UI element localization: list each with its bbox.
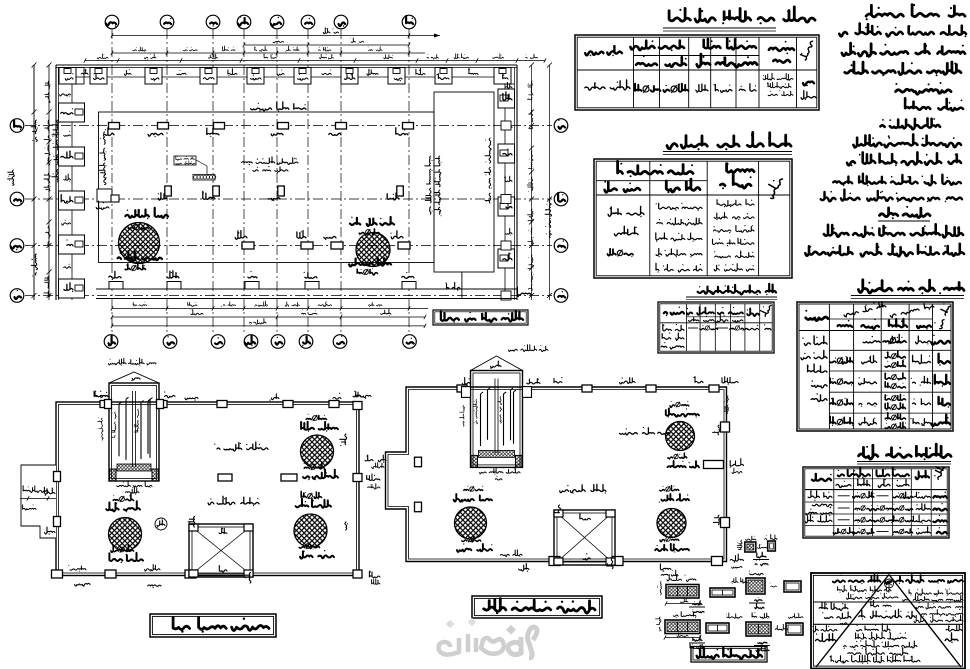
ground slab plan: elevator x-box bbox=[188, 517, 253, 584]
table: wall foundations reinforcement bbox=[575, 35, 819, 110]
table: columns reinforcement bbox=[797, 300, 953, 431]
foundation plan: top dimension line segments row2 bbox=[243, 38, 410, 48]
repeated slab plan: grid bubble A bbox=[0, 0, 1, 1]
foundation plan: vertical grid centerlines bbox=[112, 29, 409, 335]
column section C1 with labels bbox=[656, 612, 702, 640]
table title: wall foundations reinforcement bbox=[663, 7, 815, 31]
column section B2 with labels bbox=[710, 578, 747, 598]
ground slab plan: bottom wall column marks bbox=[52, 565, 197, 589]
ground slab plan: outer walls bbox=[56, 402, 359, 576]
repeated slab plan: title label box bbox=[472, 596, 602, 618]
column section A2 with labels bbox=[765, 535, 777, 552]
column section B4 bbox=[784, 581, 801, 592]
foundation plan: columns row 2 bbox=[96, 186, 403, 210]
foundation plan: left grid bubbles 1-4 bbox=[10, 119, 24, 303]
section group A fraction bbox=[753, 552, 769, 565]
ground slab plan: title label box bbox=[150, 614, 276, 637]
foundation plan: raft slab boundary rectangle bbox=[52, 102, 434, 263]
foundation plan: columns row 3 bbox=[235, 231, 410, 249]
ground slab plan: slab thickness labels bbox=[208, 442, 268, 506]
foundation plan: top strip footing band bbox=[56, 65, 517, 84]
title block: middle row texts bbox=[819, 600, 963, 624]
repeated slab plan: mesh circle c2 bbox=[655, 486, 689, 553]
table title: parapets and braces reinforcement bbox=[686, 284, 777, 299]
column section B1 with labels bbox=[657, 575, 700, 606]
foundation plan: right strip footing band bbox=[498, 65, 517, 300]
table title: foundations reinforcement bbox=[663, 132, 792, 154]
ground slab plan: right wall column marks bbox=[340, 392, 380, 584]
ground slab plan: left edge protrusion bbox=[20, 465, 56, 538]
title block: triangle bbox=[816, 575, 961, 668]
foundation plan: left vertical dimension lines bbox=[8, 63, 52, 301]
column section C2 with labels bbox=[706, 613, 742, 633]
ground slab plan: mesh circle c3 bbox=[294, 491, 334, 558]
ground slab plan: stair tower bbox=[95, 358, 164, 495]
foundation plan: stair wait detail bbox=[174, 156, 216, 180]
section group C3 fraction bbox=[754, 642, 770, 651]
section group B3 fraction bbox=[749, 597, 765, 609]
foundation plan: bottom strip footing band bbox=[96, 271, 531, 299]
foundation plan: bottom dimension lines bbox=[111, 301, 428, 328]
ground slab plan: top wall column marks bbox=[94, 391, 361, 408]
table: parapets and braces reinforcement bbox=[658, 302, 774, 353]
shared bottom grid bubbles row bbox=[104, 335, 416, 349]
ground slab plan: left wall column marks bbox=[44, 472, 60, 535]
ground slab plan: mesh circle c2 bbox=[301, 414, 339, 480]
repeated slab plan: mesh circle c3 bbox=[454, 486, 493, 552]
ground slab plan: circled number bbox=[155, 518, 167, 530]
column section C3 with labels bbox=[746, 612, 788, 636]
section group B fraction bbox=[689, 601, 705, 613]
watermark bbox=[439, 618, 537, 658]
repeated slab plan: mesh circle c1 bbox=[666, 401, 700, 468]
table title: beams reinforcement bbox=[857, 444, 951, 464]
repeated slab plan: interior column marks bbox=[415, 457, 422, 512]
foundation plan: mesh circle B with labels bbox=[349, 217, 394, 276]
column section B3 with labels bbox=[746, 571, 777, 595]
title block: bottom row texts bbox=[812, 624, 962, 664]
foundation plan: top dimension line per-bay row3 bbox=[111, 46, 425, 55]
table: beams reinforcement bbox=[803, 464, 949, 538]
foundation plan: left strip footing band bbox=[56, 65, 85, 300]
title block: office name and phones bbox=[903, 575, 963, 602]
title block: office logo symbol bbox=[880, 579, 898, 599]
foundation plan: mesh circle A with labels bbox=[118, 208, 168, 271]
project header text block bbox=[805, 4, 966, 257]
column section C4 with label bbox=[786, 613, 803, 635]
foundation plan: stair shaft opening bbox=[434, 92, 494, 298]
column section A1 with labels bbox=[737, 536, 767, 552]
section group C fraction bbox=[689, 636, 705, 650]
repeated slab plan: right wall column marks bbox=[704, 396, 744, 569]
table: foundations reinforcement bbox=[594, 159, 792, 278]
repeated slab plan: top wall column marks bbox=[457, 377, 738, 392]
repeated slab plan: elevator x-box bbox=[554, 505, 615, 569]
repeated slab plan: outer walls with notch bbox=[386, 387, 727, 562]
title block: project name top-left bbox=[833, 575, 903, 600]
foundation plan: right vertical dimension lines bbox=[527, 63, 552, 301]
repeated slab plan: slab thickness labels bbox=[560, 427, 670, 494]
foundation plan: horizontal grid centerlines bbox=[25, 126, 552, 296]
repeated slab plan: stair tower bbox=[460, 345, 548, 480]
repeated slab plan: bottom wall column marks bbox=[500, 550, 722, 576]
foundation plan: columns row 1 bbox=[105, 123, 414, 138]
title block: horizontal dividers bbox=[813, 602, 962, 624]
foundation plan: title label box bbox=[433, 310, 528, 325]
foundation plan: top dimension line row4 bbox=[84, 54, 546, 63]
labels between plans bbox=[365, 455, 386, 469]
foundation plan: top dimension line total bbox=[111, 28, 440, 38]
ground slab plan: mesh circle c1 bbox=[106, 494, 143, 563]
foundation plan: slab note text bbox=[242, 157, 298, 173]
title block: outer frame bbox=[811, 573, 965, 669]
foundation plan: right grid bubbles 1-4 bbox=[554, 119, 568, 303]
column sections label box bbox=[691, 647, 767, 663]
ground slab plan: interior beam marks bbox=[218, 474, 297, 481]
foundation plan: top grid bubbles row bbox=[105, 15, 416, 29]
table title: columns reinforcement bbox=[851, 280, 964, 299]
